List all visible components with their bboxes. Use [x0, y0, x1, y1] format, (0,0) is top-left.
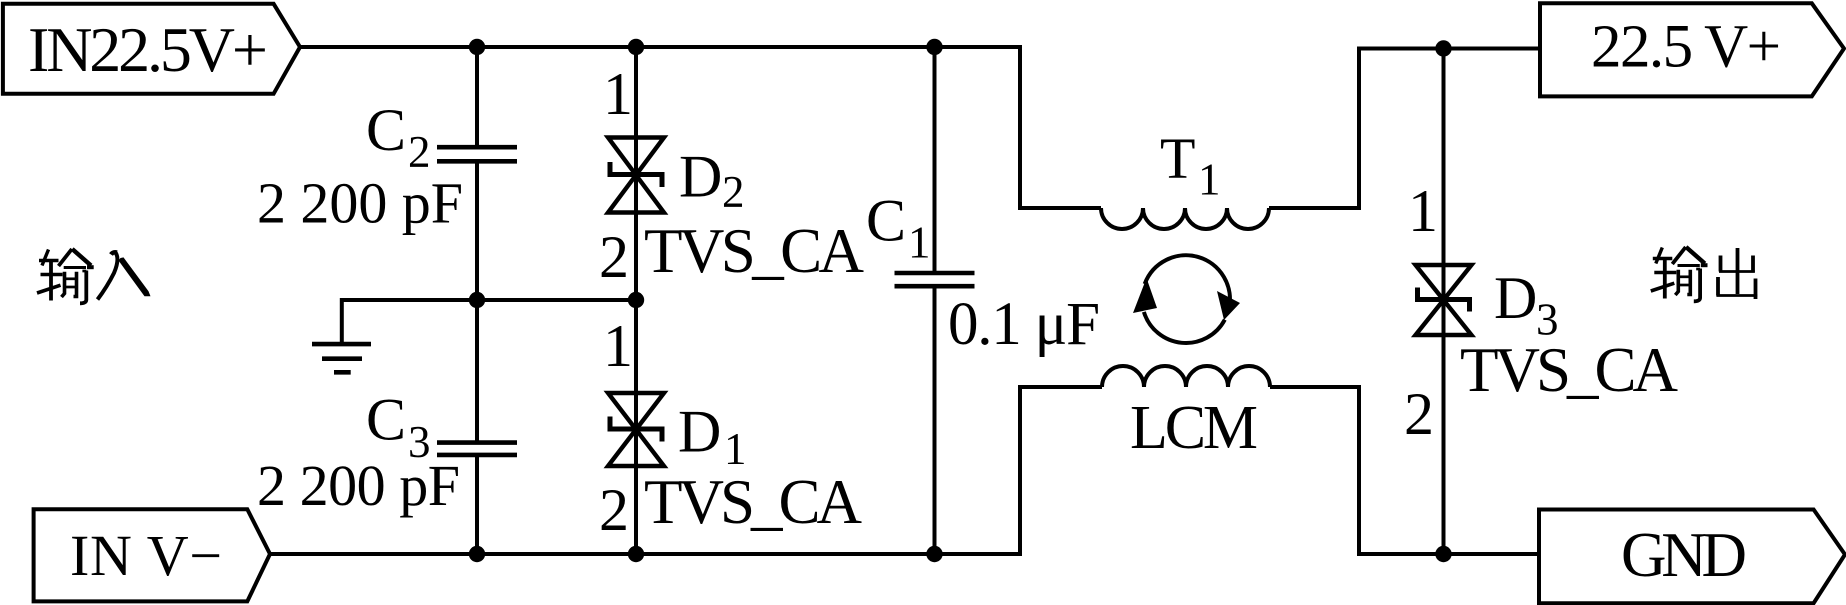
svg-text:LCM: LCM [1130, 394, 1258, 462]
svg-text:1: 1 [603, 313, 633, 379]
svg-text:1: 1 [1408, 178, 1438, 244]
svg-text:GND: GND [1621, 520, 1747, 590]
svg-text:1: 1 [603, 61, 633, 127]
svg-text:D: D [678, 399, 721, 465]
svg-text:D: D [679, 144, 722, 210]
svg-text:TVS_CA: TVS_CA [1460, 335, 1679, 405]
svg-text:2 200 pF: 2 200 pF [257, 171, 463, 236]
svg-text:TVS_CA: TVS_CA [644, 216, 865, 286]
svg-text:IN22.5V+: IN22.5V+ [28, 14, 268, 85]
svg-text:2: 2 [722, 167, 745, 217]
svg-text:2 200 pF: 2 200 pF [257, 453, 460, 518]
svg-text:22.5 V+: 22.5 V+ [1591, 14, 1781, 81]
svg-text:T: T [1160, 126, 1195, 191]
svg-text:2: 2 [408, 127, 431, 177]
svg-text:2: 2 [599, 477, 629, 543]
svg-text:2: 2 [1404, 381, 1434, 447]
svg-text:1: 1 [1198, 155, 1221, 205]
svg-text:1: 1 [908, 218, 931, 268]
svg-text:IN V−: IN V− [70, 523, 222, 588]
svg-text:2: 2 [599, 224, 629, 290]
svg-text:TVS_CA: TVS_CA [644, 467, 863, 537]
svg-text:C: C [366, 97, 406, 163]
svg-text:D: D [1494, 265, 1537, 331]
svg-text:C: C [366, 387, 406, 453]
svg-text:0.1 μF: 0.1 μF [948, 291, 1100, 358]
svg-text:C: C [866, 188, 906, 254]
